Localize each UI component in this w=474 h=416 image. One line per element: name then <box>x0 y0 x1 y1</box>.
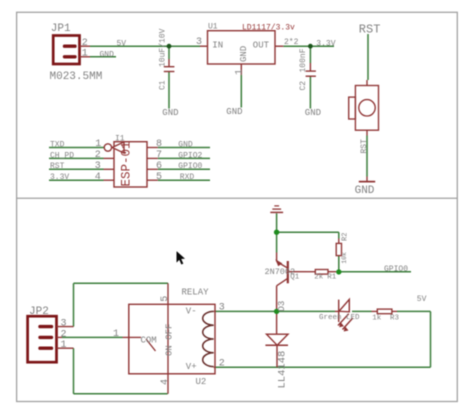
svg-text:LL4148: LL4148 <box>277 351 289 389</box>
svg-text:ESP-01: ESP-01 <box>119 141 133 186</box>
svg-text:5: 5 <box>156 172 162 183</box>
svg-text:GND: GND <box>162 108 178 118</box>
svg-text:6: 6 <box>156 161 162 172</box>
svg-text:3.3V: 3.3V <box>316 40 335 49</box>
svg-text:4: 4 <box>160 379 171 385</box>
svg-text:R2: R2 <box>341 233 349 241</box>
svg-text:10k: 10k <box>341 252 348 264</box>
svg-text:GND: GND <box>305 108 321 118</box>
svg-text:2*2: 2*2 <box>284 38 299 47</box>
svg-text:R3: R3 <box>390 314 400 322</box>
svg-text:GPIO0: GPIO0 <box>178 162 202 171</box>
svg-text:1: 1 <box>95 139 101 150</box>
svg-text:OUT: OUT <box>253 41 270 51</box>
svg-text:CH_PD: CH_PD <box>50 151 74 160</box>
svg-text:100nF: 100nF <box>299 48 308 72</box>
svg-text:V+: V+ <box>186 362 197 372</box>
svg-text:COM: COM <box>141 335 157 345</box>
svg-text:U1: U1 <box>208 23 218 32</box>
svg-text:2: 2 <box>219 358 225 369</box>
svg-text:RST: RST <box>359 23 381 37</box>
svg-text:3: 3 <box>196 37 202 48</box>
svg-text:GPIO2: GPIO2 <box>178 151 202 160</box>
svg-text:IN: IN <box>212 41 223 51</box>
svg-text:1: 1 <box>113 329 119 340</box>
svg-text:R1: R1 <box>327 274 337 282</box>
svg-text:RST: RST <box>50 162 65 171</box>
svg-text:3: 3 <box>61 319 67 330</box>
svg-text:C2: C2 <box>299 81 308 91</box>
svg-text:GND: GND <box>178 140 193 149</box>
svg-text:LD1117/3.3v: LD1117/3.3v <box>242 24 295 33</box>
svg-text:U2: U2 <box>196 377 207 387</box>
svg-text:JP2: JP2 <box>29 306 49 318</box>
svg-text:GPIO0: GPIO0 <box>384 265 408 274</box>
svg-text:GND: GND <box>100 50 115 59</box>
svg-text:7: 7 <box>156 150 162 161</box>
svg-text:4: 4 <box>95 172 101 183</box>
svg-text:2: 2 <box>82 38 88 49</box>
svg-text:TXD: TXD <box>50 140 65 149</box>
svg-text:1: 1 <box>235 69 246 75</box>
svg-text:5V: 5V <box>417 295 427 304</box>
svg-text:5: 5 <box>160 296 171 302</box>
svg-text:JP1: JP1 <box>51 23 71 35</box>
svg-text:GND: GND <box>239 46 249 62</box>
svg-text:1: 1 <box>61 340 67 351</box>
svg-text:5V: 5V <box>117 39 127 48</box>
svg-text:8: 8 <box>156 139 162 150</box>
svg-text:2k: 2k <box>314 274 324 282</box>
svg-text:1k: 1k <box>372 314 382 322</box>
svg-text:RST: RST <box>360 139 369 154</box>
svg-text:GND: GND <box>355 185 375 197</box>
svg-text:ON OFF: ON OFF <box>165 324 175 356</box>
svg-text:10uF/10V: 10uF/10V <box>158 28 167 67</box>
svg-text:RXD: RXD <box>180 173 195 182</box>
svg-text:3.3V: 3.3V <box>50 173 69 182</box>
svg-text:3: 3 <box>219 303 225 314</box>
svg-text:RELAY: RELAY <box>182 288 210 298</box>
svg-text:GND: GND <box>226 107 242 117</box>
svg-text:Green LED: Green LED <box>319 314 360 322</box>
svg-text:C1: C1 <box>158 80 167 90</box>
svg-text:2: 2 <box>95 150 101 161</box>
svg-text:1: 1 <box>82 49 88 60</box>
svg-text:D3: D3 <box>277 301 287 312</box>
svg-text:Q1: Q1 <box>290 274 300 282</box>
svg-text:2: 2 <box>61 329 67 340</box>
svg-text:M023.5MM: M023.5MM <box>50 71 103 83</box>
svg-text:3: 3 <box>95 161 101 172</box>
svg-text:V-: V- <box>186 307 197 317</box>
